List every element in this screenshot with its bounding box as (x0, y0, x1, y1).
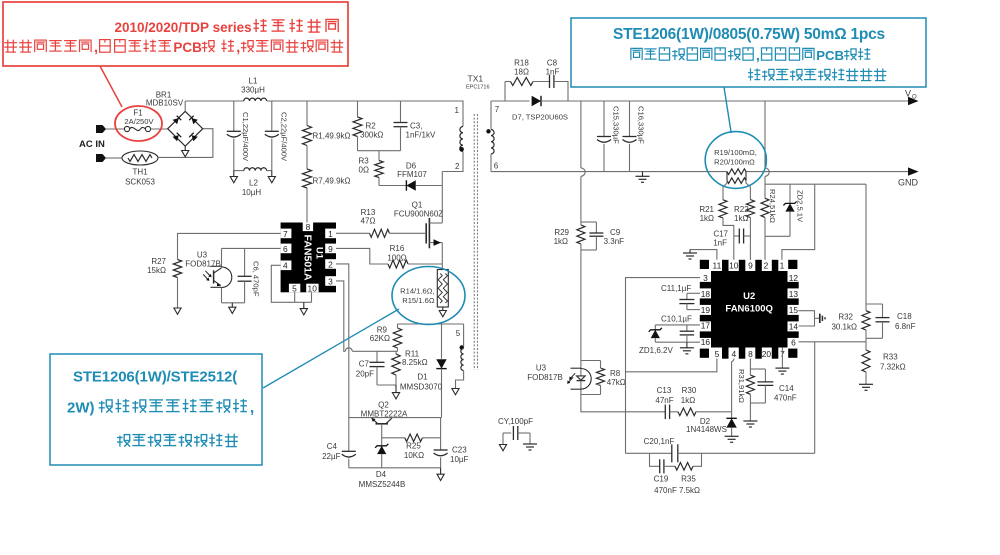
wire U1 pin10 stub (311, 292, 313, 302)
svg-text:62KΩ: 62KΩ (370, 334, 390, 343)
svg-text:FOD817B: FOD817B (527, 373, 563, 382)
svg-text:FOD817B: FOD817B (185, 260, 221, 269)
svg-text:18Ω: 18Ω (514, 68, 529, 77)
snubber stub left (504, 82, 506, 102)
wire bridge top to bus (184, 101, 186, 111)
svg-text:,: , (250, 400, 254, 417)
wire R1 to R7 (306, 146, 308, 170)
zener ZD1 (654, 325, 656, 330)
zener ZD2 (789, 184, 791, 203)
shunt resistor R19 (727, 169, 746, 175)
svg-text:C10,1µF: C10,1µF (661, 314, 692, 323)
wire L2 rail left (234, 170, 244, 172)
capacitor C2 (271, 101, 273, 131)
wire U2 pin4 down (733, 359, 735, 361)
svg-text:,: , (236, 40, 240, 56)
svg-text:CY,100pF: CY,100pF (498, 417, 533, 426)
wire C19 branch left (650, 453, 660, 466)
callout red text line2 (7, 40, 9, 53)
wire U1 pin2 down to Q2 (336, 264, 349, 418)
ground below GND bus (642, 172, 644, 176)
svg-text:EPC1716: EPC1716 (466, 85, 490, 91)
svg-text:C3,: C3, (410, 122, 422, 131)
svg-text:C23: C23 (452, 446, 467, 455)
svg-text:6: 6 (283, 244, 288, 254)
wire Q2 bottom rail (349, 467, 441, 469)
resistor R27 (173, 260, 181, 278)
inductor L2 (244, 168, 267, 171)
wire U1 pin3 down to R9 rail (336, 281, 345, 351)
optocoupler U3 phototransistor (221, 248, 223, 267)
wire riser to pin6 node (814, 342, 816, 454)
resistor R21 (723, 181, 727, 200)
svg-text:R32: R32 (838, 313, 853, 322)
resistor R29 (577, 225, 585, 244)
highlight circle blue around R19/R20 (705, 132, 766, 189)
svg-text:STE1206(1W)/STE2512(: STE1206(1W)/STE2512( (73, 369, 237, 386)
svg-text:U3: U3 (197, 251, 208, 260)
transformer TX1 secondary winding (490, 101, 492, 129)
diode D6 (406, 180, 415, 190)
svg-text:30.1kΩ: 30.1kΩ (831, 323, 857, 332)
svg-text:11: 11 (713, 261, 722, 271)
svg-text:R25: R25 (406, 442, 421, 451)
wire Vo bus (541, 100, 908, 102)
svg-text:2A/250V: 2A/250V (124, 117, 154, 126)
wire R32 C18 to pin6 wire (865, 338, 867, 342)
svg-text:4: 4 (283, 261, 288, 271)
svg-text:5: 5 (292, 283, 297, 293)
svg-text:0Ω: 0Ω (359, 166, 369, 175)
ground below R11 (395, 385, 397, 393)
svg-text:R1,49.9kΩ: R1,49.9kΩ (313, 132, 351, 141)
svg-text:1nF: 1nF (713, 238, 727, 247)
leader line red to F1 (100, 66, 122, 107)
aux rail top (398, 323, 464, 325)
phase dot primary (459, 147, 464, 152)
svg-text:300kΩ: 300kΩ (360, 131, 383, 140)
svg-text:D7, TSP20U60S: D7, TSP20U60S (512, 113, 568, 122)
wire R22 to pin9 (749, 218, 751, 260)
capacitor C3 (400, 101, 402, 123)
svg-text:1kΩ: 1kΩ (681, 396, 695, 405)
ground below R14 R15 (442, 307, 444, 311)
resistor R33 (865, 342, 867, 350)
svg-text:MMBT2222A: MMBT2222A (361, 409, 408, 418)
svg-text:C14: C14 (779, 384, 794, 393)
wire R3 to D6 (379, 185, 406, 187)
svg-text:R2: R2 (366, 122, 377, 131)
svg-text:8: 8 (306, 222, 311, 232)
wire R2 C3 bottom bracket (358, 150, 401, 152)
svg-text:R27: R27 (151, 257, 166, 266)
wire C13 to R30 (670, 411, 678, 413)
svg-text:R20/100mΩ: R20/100mΩ (714, 158, 755, 167)
capacitor C13 (664, 405, 666, 420)
wire pin15 pin14 bracket (799, 311, 815, 326)
svg-text:SCK053: SCK053 (125, 178, 155, 187)
resistor R3 (378, 151, 380, 161)
wire R27 to ground (177, 278, 179, 309)
U2 edge pads (722, 260, 729, 271)
svg-text:2: 2 (455, 162, 460, 171)
wire U1 pin7 to R27 (178, 233, 281, 259)
ground below R27 (174, 308, 181, 314)
wire secondary top to D7 (491, 100, 530, 102)
svg-text:18: 18 (701, 289, 711, 299)
svg-text:C15,330µF: C15,330µF (612, 106, 621, 144)
svg-text:47Ω: 47Ω (361, 217, 376, 226)
svg-text:17: 17 (701, 320, 711, 330)
zener D4 (381, 438, 383, 446)
inductor L1 (244, 98, 267, 101)
optocoupler U3 LED side (580, 361, 582, 376)
diode D7 (532, 96, 541, 106)
svg-text:1: 1 (328, 229, 333, 239)
svg-text:MMSZ5244B: MMSZ5244B (359, 480, 406, 489)
svg-text:1kΩ: 1kΩ (554, 237, 568, 246)
svg-text:V: V (905, 89, 911, 99)
svg-text:6: 6 (494, 162, 499, 171)
wire R18 to C8 (533, 81, 550, 83)
svg-text:R16: R16 (390, 244, 405, 253)
snubber stub right (554, 82, 568, 102)
wire drain vertical (441, 172, 443, 224)
svg-text:C17: C17 (713, 229, 728, 238)
diode D2 (726, 418, 736, 427)
wire ZD2 to pin2 node (765, 235, 790, 237)
resistor R18 (511, 78, 534, 86)
wire R31 to ground (749, 394, 751, 420)
capacitor C18 (866, 303, 883, 305)
svg-text:1: 1 (455, 106, 460, 115)
resistor R13 (370, 229, 390, 237)
svg-text:D4: D4 (376, 470, 387, 479)
svg-text:MDB10SV: MDB10SV (146, 99, 184, 108)
svg-text:FFM107: FFM107 (397, 170, 427, 179)
ground below R31 C14 (743, 420, 757, 422)
wire TH1 to bridge right leg (158, 129, 213, 158)
wire Vout sense drop (764, 101, 766, 168)
svg-text:10: 10 (308, 283, 318, 293)
wire to R18 (505, 81, 511, 83)
svg-text:PCB: PCB (173, 40, 202, 55)
capacitor C20 (671, 444, 673, 462)
capacitor C14 (750, 368, 765, 370)
wire opto emitter to rail (221, 288, 223, 303)
svg-text:4: 4 (731, 349, 736, 359)
svg-text:15kΩ: 15kΩ (147, 266, 166, 275)
wire C7 R11 bottom bracket (377, 384, 396, 386)
ground below opto rail (231, 303, 233, 307)
svg-text:14: 14 (789, 321, 799, 331)
svg-text:1kΩ: 1kΩ (700, 214, 714, 223)
svg-text:PCB: PCB (816, 48, 844, 63)
svg-text:2: 2 (764, 261, 769, 271)
wire GND bus right (746, 171, 908, 173)
wire pin1 riser (782, 184, 815, 260)
capacitor C7 (376, 351, 378, 362)
wire L2 rail right (267, 170, 272, 172)
resistor R35 (675, 463, 693, 471)
wire loop to C20 (626, 452, 672, 454)
resistor R1 (306, 101, 308, 126)
svg-text:100Ω: 100Ω (387, 253, 406, 262)
wire fuse to bridge (151, 128, 168, 130)
svg-text:13: 13 (789, 289, 799, 299)
svg-text:,: , (94, 40, 98, 56)
svg-text:FAN501A: FAN501A (302, 235, 314, 282)
svg-text:U2: U2 (743, 291, 755, 302)
fuse F1 (124, 126, 129, 131)
svg-text:L2: L2 (249, 179, 258, 188)
svg-text:C8: C8 (547, 59, 558, 68)
shunt resistor R20 (726, 172, 728, 181)
diode D1 (441, 324, 443, 359)
wire pin17 ZD1 C10 (655, 324, 700, 326)
capacitor C23 (440, 418, 442, 450)
svg-text:1nF: 1nF (546, 68, 560, 77)
wire R29 net to opto (580, 244, 582, 361)
svg-text:2W): 2W) (67, 400, 95, 417)
thermistor TH1 (122, 151, 158, 165)
svg-text:D1: D1 (417, 373, 428, 382)
wire U1 pin5 stub (294, 292, 296, 302)
svg-text:5: 5 (715, 349, 720, 359)
svg-text:7: 7 (495, 105, 500, 114)
svg-text:R22: R22 (734, 205, 749, 214)
wire input top to fuse (106, 128, 125, 130)
callout blue-top text line2 (631, 48, 642, 60)
wire R30 to pin4 node (696, 411, 732, 413)
capacitor C17 (734, 235, 740, 237)
svg-text:R29: R29 (554, 228, 569, 237)
callout box red: fuse note (3, 2, 348, 66)
input terminal top (96, 125, 106, 133)
svg-text:15: 15 (789, 305, 799, 315)
svg-text:2010/2020/TDP series: 2010/2020/TDP series (115, 20, 252, 35)
Vo output arrow (908, 97, 919, 105)
svg-text:STE1206(1W)/0805(0.75W) 50mΩ 1: STE1206(1W)/0805(0.75W) 50mΩ 1pcs (613, 26, 885, 43)
svg-text:C1,22µF/400V: C1,22µF/400V (241, 112, 250, 162)
resistor R9 (397, 324, 399, 328)
svg-text:U3: U3 (536, 364, 547, 373)
GND output arrow (908, 167, 919, 175)
svg-text:R15/1.6Ω: R15/1.6Ω (402, 296, 435, 305)
svg-text:1nF/1kV: 1nF/1kV (406, 131, 436, 140)
svg-text:L1: L1 (249, 77, 258, 86)
svg-text:C13: C13 (657, 386, 672, 395)
svg-text:C7: C7 (359, 360, 370, 369)
resistor R24 (761, 198, 769, 217)
ground below R33 (859, 383, 873, 385)
svg-text:8.25kΩ: 8.25kΩ (402, 358, 428, 367)
wire R35 branch right (693, 453, 702, 466)
wire R25 to C23 line (422, 437, 440, 439)
svg-text:3.3nF: 3.3nF (604, 237, 625, 246)
ground below C1 (233, 171, 235, 177)
svg-text:R35: R35 (681, 475, 696, 484)
wire opto ground rail (222, 302, 245, 304)
svg-text:O: O (912, 95, 917, 101)
wire pin16 bracket (655, 341, 700, 343)
svg-text:20: 20 (762, 349, 772, 359)
resistor R25 (405, 434, 423, 442)
svg-text:9: 9 (748, 261, 753, 271)
svg-text:R24,51kΩ: R24,51kΩ (768, 189, 777, 223)
transformer core lines (473, 114, 475, 370)
ground below bridge (184, 146, 186, 150)
svg-text:C11,1µF: C11,1µF (661, 284, 691, 293)
svg-text:FCU900N60Z: FCU900N60Z (394, 210, 443, 219)
wire U1 pin9 to R16 (336, 248, 388, 264)
svg-text:10: 10 (729, 261, 739, 271)
wire R21 to pin10 (723, 218, 734, 260)
U2 corner pads (700, 260, 709, 269)
svg-text:9: 9 (328, 244, 333, 254)
wire U1 pin6 to opto (222, 247, 281, 249)
svg-text:19: 19 (701, 305, 711, 315)
light arrows into U3 (205, 271, 210, 277)
svg-text:1kΩ: 1kΩ (734, 214, 748, 223)
MOSFET Q1 (425, 223, 427, 243)
svg-text:U1: U1 (314, 247, 325, 260)
resistor R8 (600, 361, 602, 369)
wire C20 to riser (678, 452, 815, 454)
capacitor C16 (629, 101, 631, 137)
capacitor C9 (581, 221, 597, 223)
svg-text:470nF: 470nF (654, 486, 677, 495)
svg-text:7.5kΩ: 7.5kΩ (679, 486, 700, 495)
bridge rectifier BR1 (168, 111, 203, 146)
wire input bottom to TH1 (106, 157, 122, 159)
svg-text:,: , (756, 48, 760, 64)
capacitor C11 (687, 292, 700, 294)
svg-text:C9: C9 (610, 228, 621, 237)
wire R7 to U1 pin8 (306, 188, 308, 223)
wire top bus primary (185, 100, 244, 102)
resistor R11 (395, 351, 397, 354)
svg-text:C19: C19 (654, 475, 669, 484)
svg-text:R21: R21 (699, 205, 714, 214)
svg-text:R30: R30 (682, 386, 697, 395)
svg-text:TH1: TH1 (132, 168, 148, 177)
svg-text:C6, 470pF: C6, 470pF (252, 261, 261, 297)
capacitor C4 (348, 418, 350, 452)
svg-text:47nF: 47nF (655, 396, 673, 405)
wire R24 to pin2 node (764, 217, 766, 259)
wire pin6 to R32 node (799, 341, 867, 343)
probe symbol at pin15 (815, 317, 820, 319)
svg-text:330µH: 330µH (241, 86, 265, 95)
resistor R30 (678, 408, 696, 416)
wire opto bottom bracket (581, 394, 601, 396)
svg-text:MMSD3070: MMSD3070 (400, 382, 443, 391)
wire U2 pin3 net (626, 278, 701, 454)
wire bus L1 to TX1 (267, 100, 463, 102)
wire R16 to source node (408, 263, 442, 265)
leader line blue to R14/R15 (263, 309, 399, 388)
svg-text:C2,22µF/400V: C2,22µF/400V (279, 112, 288, 162)
svg-text:R19/100mΩ,: R19/100mΩ, (714, 148, 757, 157)
ground below D2 (725, 435, 739, 437)
svg-text:3: 3 (703, 273, 708, 283)
wire opto out to C13 (581, 395, 665, 412)
svg-text:2: 2 (328, 259, 333, 269)
svg-text:12: 12 (789, 273, 799, 283)
wire Q1 source down (441, 243, 443, 270)
resistor R14 R15 box (437, 270, 448, 308)
svg-text:C20,1nF: C20,1nF (644, 437, 675, 446)
svg-text:10µH: 10µH (242, 188, 262, 197)
svg-text:C16,330µF: C16,330µF (637, 106, 646, 144)
capacitor C19 (659, 459, 661, 473)
svg-text:Q2: Q2 (378, 401, 389, 410)
svg-text:5: 5 (456, 329, 461, 338)
input terminal bottom (96, 154, 106, 162)
svg-text:10KΩ: 10KΩ (404, 451, 424, 460)
wire pin11 ground (690, 250, 717, 260)
svg-text:16: 16 (701, 337, 711, 347)
svg-text:R3: R3 (359, 157, 370, 166)
svg-text:7.32kΩ: 7.32kΩ (880, 362, 906, 371)
svg-text:FAN6100Q: FAN6100Q (725, 304, 773, 315)
resistor R22 (746, 181, 750, 200)
svg-text:22µF: 22µF (322, 452, 341, 461)
light arrows out of U3 LED (570, 373, 575, 379)
capacitor C6 (244, 248, 246, 276)
wire R13 to Q1 gate (390, 232, 427, 234)
wire sense tee horizontal (765, 183, 866, 185)
svg-text:TX1: TX1 (468, 74, 484, 84)
wire sense line down right (865, 184, 867, 304)
svg-text:ZD2,5.1V: ZD2,5.1V (796, 190, 805, 223)
svg-text:1: 1 (780, 261, 785, 271)
svg-text:R8: R8 (610, 369, 621, 378)
leader line blue to R19/R20 (724, 87, 731, 133)
highlight ellipse red around F1 (115, 106, 162, 141)
IC U2 FAN6100Q body (711, 271, 788, 348)
capacitor C15 (603, 101, 605, 137)
ground below C10 (686, 342, 688, 347)
transformer TX1 primary winding (460, 127, 463, 152)
callout box blue bottom-left: R14/R15 note (50, 354, 262, 465)
callout blue-top text line3 (750, 68, 752, 80)
svg-text:470nF: 470nF (774, 394, 797, 403)
resistor R32 (865, 304, 867, 311)
svg-text:R7,49.9kΩ: R7,49.9kΩ (313, 177, 351, 186)
transformer TX1 aux winding (463, 324, 465, 347)
highlight ellipse blue around R14/R15 (392, 267, 465, 325)
svg-text:C4: C4 (327, 442, 338, 451)
svg-text:20pF: 20pF (356, 369, 374, 378)
svg-text:R14/1.6Ω,: R14/1.6Ω, (400, 287, 434, 296)
wire U1 pin4 ground rail (271, 265, 311, 302)
svg-text:AC IN: AC IN (79, 139, 105, 150)
ground below C2 (271, 171, 273, 177)
wire opto top bracket (581, 360, 601, 362)
svg-text:7: 7 (283, 229, 288, 239)
resistor R31 (749, 359, 751, 362)
svg-text:R33: R33 (883, 352, 898, 361)
svg-text:6: 6 (791, 337, 796, 347)
capacitor C10 (686, 325, 688, 331)
svg-text:47kΩ: 47kΩ (607, 378, 626, 387)
wire TX1 pin2 (442, 152, 463, 172)
callout box blue top-right: shunt note (571, 18, 926, 87)
wire U1 pin1 to R13 (336, 232, 370, 234)
resistor R16 (388, 260, 408, 268)
